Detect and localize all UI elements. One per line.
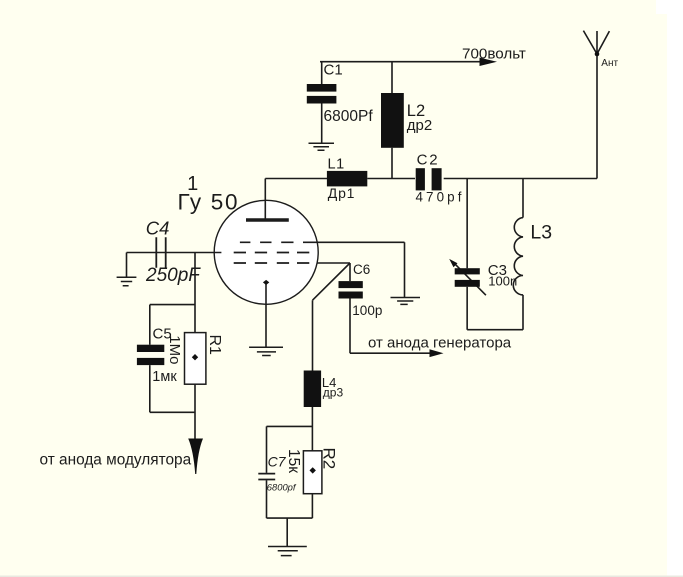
svg-text:др2: др2 — [407, 117, 432, 134]
svg-text:C2: C2 — [417, 152, 440, 169]
svg-text:6800Pf: 6800Pf — [324, 108, 374, 125]
svg-text:100n: 100n — [488, 273, 517, 288]
svg-text:Др1: Др1 — [328, 185, 355, 201]
svg-text:470pf: 470pf — [416, 189, 465, 204]
svg-text:6800pf: 6800pf — [267, 482, 297, 493]
svg-text:15к: 15к — [285, 449, 302, 473]
svg-text:1мк: 1мк — [152, 369, 177, 385]
svg-text:C7: C7 — [268, 454, 287, 470]
svg-text:250pF: 250pF — [145, 265, 201, 286]
svg-text:C4: C4 — [146, 217, 170, 238]
svg-text:C1: C1 — [324, 62, 343, 79]
svg-text:от анода генератора: от анода генератора — [368, 334, 512, 351]
svg-text:C6: C6 — [353, 262, 370, 277]
svg-text:R2: R2 — [320, 448, 339, 470]
svg-text:700вольт: 700вольт — [462, 46, 526, 63]
svg-text:Гу 50: Гу 50 — [178, 190, 240, 215]
svg-text:от анода модулятора: от анода модулятора — [40, 451, 192, 468]
svg-text:др3: др3 — [323, 386, 344, 400]
svg-text:L3: L3 — [530, 222, 552, 244]
svg-text:1Mo: 1Mo — [166, 335, 183, 364]
svg-text:L1: L1 — [328, 156, 345, 172]
svg-text:R1: R1 — [206, 335, 223, 356]
svg-text:100p: 100p — [352, 303, 382, 318]
svg-text:Ант: Ант — [601, 58, 618, 69]
